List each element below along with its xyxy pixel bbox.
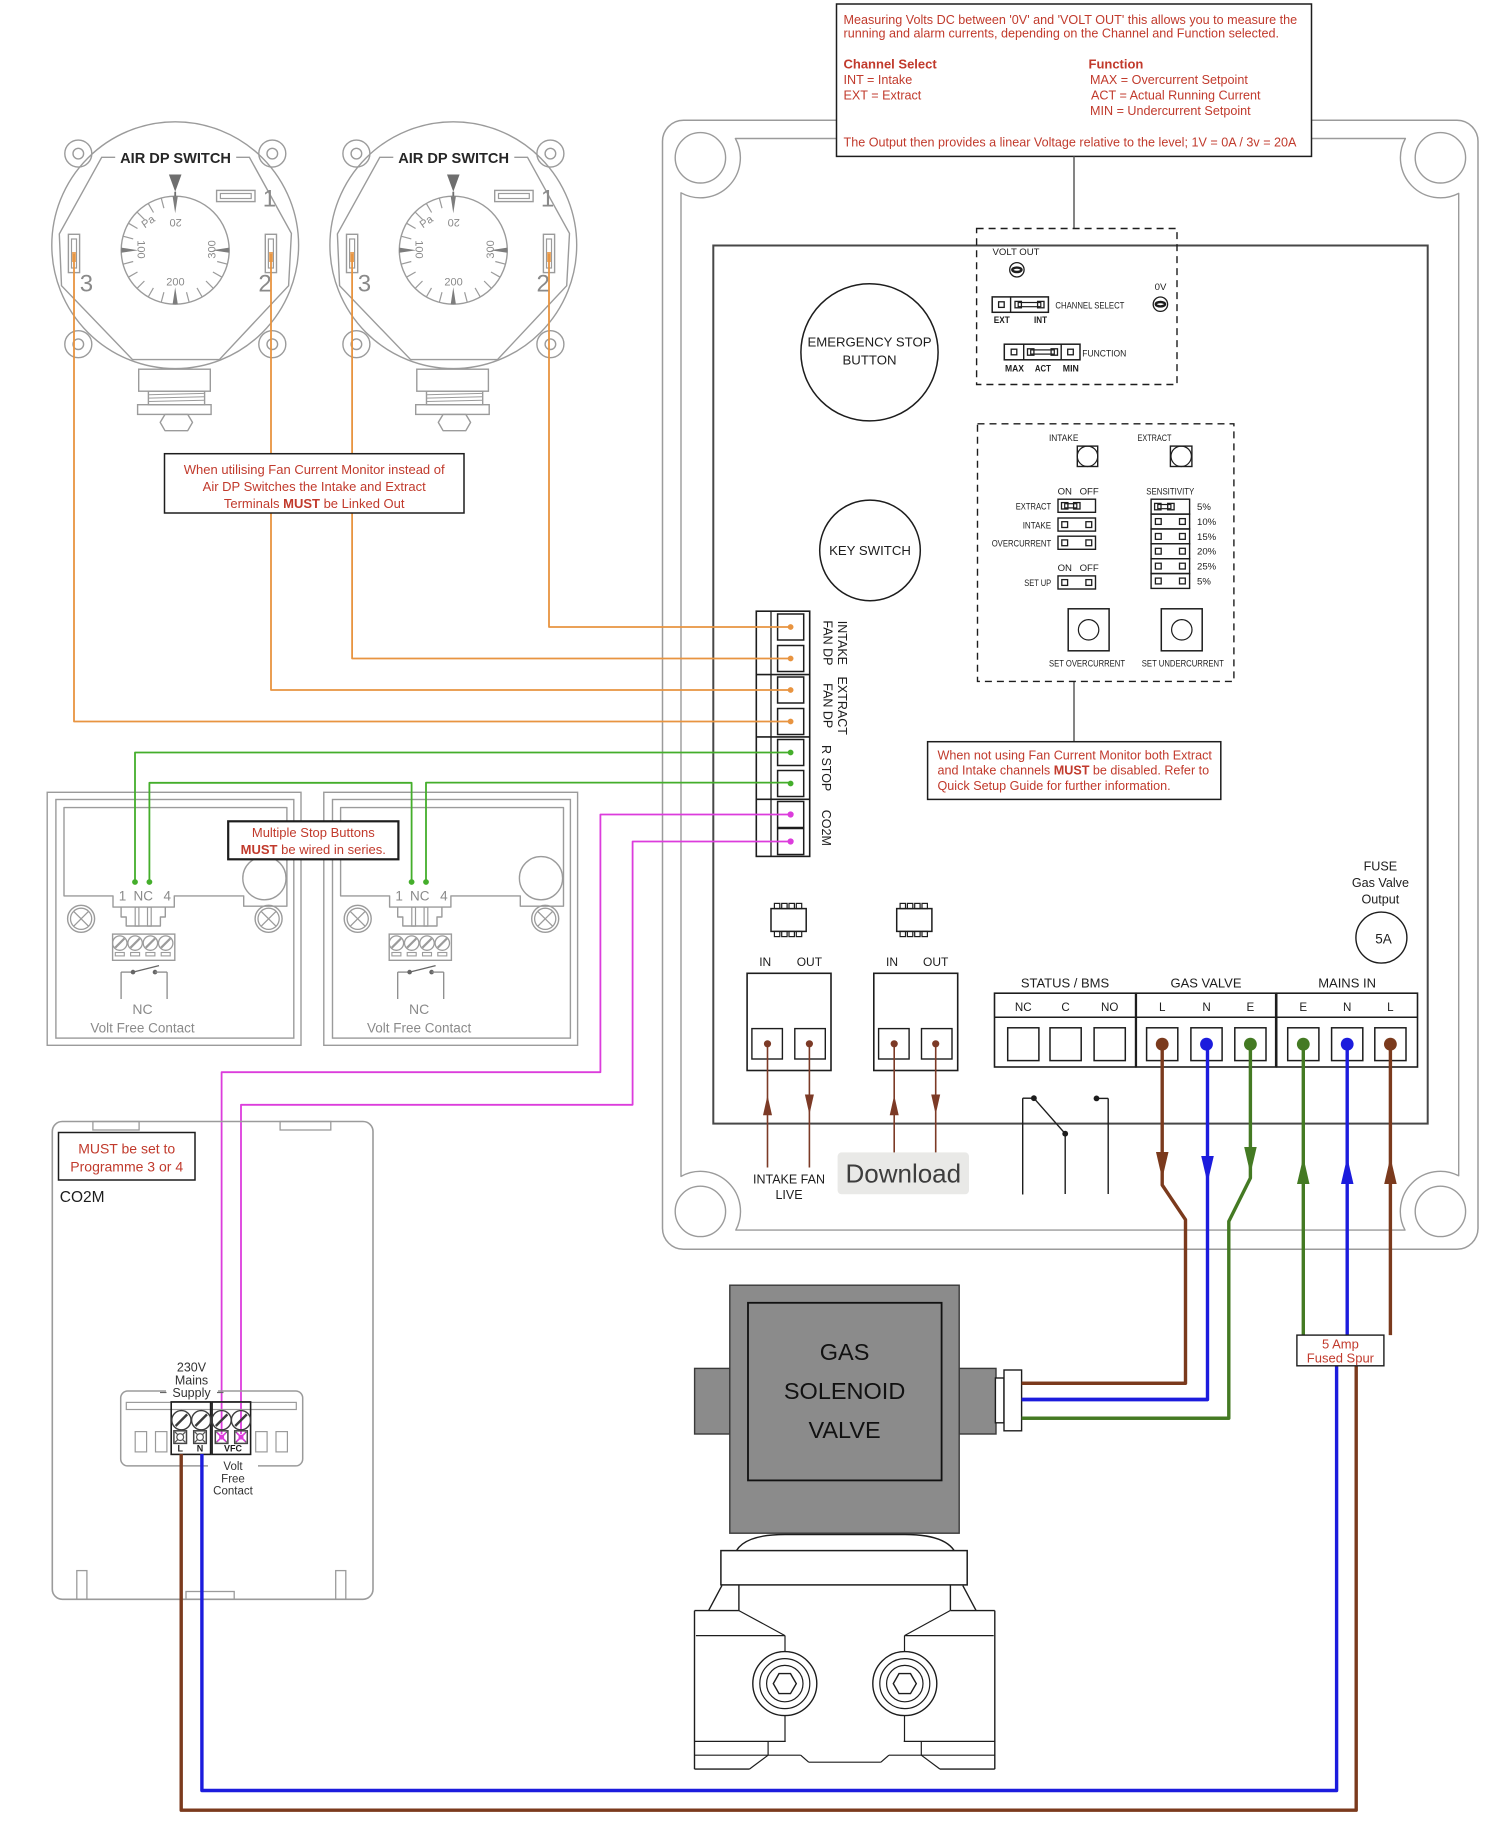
svg-text:EXTRACT: EXTRACT [1138, 433, 1172, 444]
svg-text:MIN = Undercurrent Setpoint: MIN = Undercurrent Setpoint [1090, 104, 1251, 118]
svg-text:Contact: Contact [213, 1486, 253, 1498]
svg-text:IN: IN [886, 955, 898, 969]
svg-text:When utilising Fan Current Mon: When utilising Fan Current Monitor inste… [184, 462, 445, 477]
svg-text:Quick Setup Guide for further: Quick Setup Guide for further informatio… [938, 779, 1171, 793]
svg-text:ACT = Actual Running Current: ACT = Actual Running Current [1091, 89, 1261, 103]
svg-text:OUT: OUT [797, 955, 823, 969]
svg-text:N: N [1343, 1001, 1351, 1014]
svg-text:GAS VALVE: GAS VALVE [1170, 976, 1241, 991]
svg-text:OVERCURRENT: OVERCURRENT [992, 539, 1052, 550]
svg-text:Multiple Stop Buttons: Multiple Stop Buttons [252, 825, 375, 840]
svg-text:KEY SWITCH: KEY SWITCH [829, 543, 911, 558]
svg-text:MAINS IN: MAINS IN [1318, 976, 1376, 991]
svg-text:Free: Free [221, 1473, 245, 1485]
svg-text:SET OVERCURRENT: SET OVERCURRENT [1049, 659, 1125, 669]
svg-text:FUSE: FUSE [1364, 859, 1398, 873]
svg-text:VFC: VFC [224, 1444, 243, 1454]
svg-text:MIN: MIN [1063, 363, 1079, 374]
svg-text:GAS: GAS [820, 1339, 870, 1365]
svg-text:MUST be set to: MUST be set to [78, 1140, 175, 1156]
svg-text:L: L [1387, 1001, 1394, 1014]
svg-text:FAN DP: FAN DP [821, 620, 835, 665]
svg-text:IN: IN [759, 955, 771, 969]
svg-text:5A: 5A [1375, 932, 1392, 947]
svg-text:INT = Intake: INT = Intake [844, 73, 913, 87]
svg-text:C: C [1061, 1001, 1069, 1014]
svg-text:EMERGENCY STOP: EMERGENCY STOP [807, 335, 931, 350]
svg-text:Air DP Switches the Intake and: Air DP Switches the Intake and Extract [203, 479, 426, 494]
svg-text:R STOP: R STOP [819, 745, 833, 791]
svg-text:MAX: MAX [1005, 363, 1025, 374]
svg-text:Function: Function [1089, 57, 1144, 72]
svg-text:OUT: OUT [923, 955, 949, 969]
svg-text:EXTRACT: EXTRACT [835, 677, 849, 736]
svg-text:When not using Fan Current Mon: When not using Fan Current Monitor both … [938, 749, 1213, 763]
svg-text:15%: 15% [1197, 532, 1217, 543]
svg-text:SET UP: SET UP [1024, 578, 1051, 589]
svg-text:CO2M: CO2M [819, 810, 833, 846]
svg-text:ON: ON [1058, 487, 1072, 498]
svg-text:INTAKE: INTAKE [835, 621, 849, 665]
svg-text:INTAKE: INTAKE [1049, 433, 1079, 444]
svg-text:25%: 25% [1197, 562, 1217, 573]
svg-text:Supply: Supply [172, 1386, 211, 1400]
svg-text:L: L [1159, 1001, 1166, 1014]
svg-text:N: N [197, 1444, 204, 1454]
svg-text:SET UNDERCURRENT: SET UNDERCURRENT [1142, 659, 1224, 669]
svg-text:Download: Download [845, 1159, 961, 1189]
svg-text:Fused Spur: Fused Spur [1307, 1351, 1375, 1366]
svg-text:Channel Select: Channel Select [844, 57, 938, 72]
svg-text:5 Amp: 5 Amp [1322, 1336, 1359, 1351]
svg-text:20%: 20% [1197, 547, 1217, 558]
svg-text:SENSITIVITY: SENSITIVITY [1146, 487, 1194, 498]
svg-text:Measuring Volts DC between '0V: Measuring Volts DC between '0V' and 'VOL… [844, 13, 1298, 27]
svg-text:Volt: Volt [223, 1461, 243, 1473]
svg-text:INTAKE FAN: INTAKE FAN [753, 1173, 825, 1187]
svg-text:Gas Valve: Gas Valve [1352, 876, 1409, 890]
svg-text:10%: 10% [1197, 517, 1217, 528]
svg-text:VOLT OUT: VOLT OUT [992, 247, 1039, 258]
svg-text:CO2M: CO2M [60, 1189, 105, 1206]
svg-text:N: N [1202, 1001, 1210, 1014]
svg-text:NC: NC [1015, 1001, 1032, 1014]
svg-text:LIVE: LIVE [775, 1188, 802, 1202]
svg-text:and Intake channels MUST be di: and Intake channels MUST be disabled. Re… [938, 764, 1210, 778]
svg-text:OFF: OFF [1080, 487, 1099, 498]
svg-text:0V: 0V [1155, 282, 1167, 293]
svg-text:5%: 5% [1197, 576, 1211, 587]
svg-text:ON: ON [1058, 563, 1072, 574]
svg-text:5%: 5% [1197, 502, 1211, 513]
svg-text:MAX = Overcurrent Setpoint: MAX = Overcurrent Setpoint [1090, 73, 1248, 87]
svg-text:OFF: OFF [1080, 563, 1099, 574]
svg-text:INTAKE: INTAKE [1023, 520, 1052, 531]
svg-text:ACT: ACT [1035, 363, 1051, 374]
svg-text:NO: NO [1101, 1001, 1118, 1014]
svg-text:Output: Output [1361, 892, 1399, 906]
svg-text:MUST be wired in series.: MUST be wired in series. [241, 842, 386, 857]
svg-text:STATUS / BMS: STATUS / BMS [1021, 976, 1110, 991]
svg-text:The Output then provides a lin: The Output then provides a linear Voltag… [844, 135, 1298, 149]
svg-text:FAN DP: FAN DP [821, 683, 835, 728]
svg-text:EXT: EXT [994, 315, 1010, 326]
svg-text:running and alarm currents, de: running and alarm currents, depending on… [844, 26, 1279, 40]
svg-text:VALVE: VALVE [808, 1417, 880, 1443]
svg-text:Programme 3 or 4: Programme 3 or 4 [70, 1158, 183, 1174]
svg-text:230V: 230V [177, 1361, 207, 1375]
svg-text:Terminals MUST be Linked Out: Terminals MUST be Linked Out [224, 496, 405, 511]
svg-text:E: E [1299, 1001, 1307, 1014]
svg-text:SOLENOID: SOLENOID [784, 1378, 905, 1404]
svg-text:BUTTON: BUTTON [843, 353, 897, 368]
svg-text:L: L [177, 1444, 183, 1454]
svg-text:FUNCTION: FUNCTION [1082, 349, 1126, 360]
svg-text:EXT = Extract: EXT = Extract [844, 89, 922, 103]
svg-text:INT: INT [1034, 315, 1047, 326]
svg-text:EXTRACT: EXTRACT [1016, 502, 1052, 513]
svg-text:E: E [1247, 1001, 1255, 1014]
svg-text:CHANNEL SELECT: CHANNEL SELECT [1055, 301, 1124, 312]
